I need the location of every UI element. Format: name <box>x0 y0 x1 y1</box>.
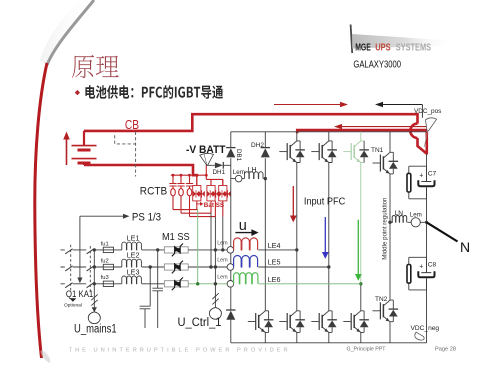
VDC_pos cone <box>426 118 437 131</box>
svg-text:THE UNINTERRUPTIBLE POWER PROV: THE UNINTERRUPTIBLE POWER PROVIDER <box>69 348 288 354</box>
svg-text:VDC_neg: VDC_neg <box>411 325 440 332</box>
svg-text:U_Ctrl_1: U_Ctrl_1 <box>178 317 222 329</box>
svg-text:LE3: LE3 <box>127 267 140 276</box>
svg-text:LE5: LE5 <box>268 258 281 267</box>
svg-text:N: N <box>460 239 470 255</box>
top rail <box>231 131 427 133</box>
Optional marker <box>70 298 77 302</box>
C8 branch box <box>409 257 427 290</box>
antiparallel diode bottom-1 <box>264 311 274 333</box>
diode DH1 <box>215 162 223 168</box>
RCTB varistor ovals x3 <box>171 189 192 196</box>
thyristor module M1SS pole 2 <box>164 261 188 274</box>
inductor LE3 <box>122 276 142 284</box>
bottom rail <box>231 342 427 344</box>
hatch marks U_Ctrl_1 <box>212 293 218 304</box>
Lem sensor row 3 <box>227 281 234 288</box>
svg-text:SYSTEMS: SYSTEMS <box>396 42 431 53</box>
gray swoosh stroke <box>47 0 94 65</box>
svg-text:fu1: fu1 <box>101 241 109 247</box>
Bat SS drop through rows to U_Ctrl_1 <box>214 217 216 308</box>
Bat SS drop to row1 <box>222 217 224 250</box>
inductor LE4 (red) <box>234 238 258 250</box>
svg-text:RCTB: RCTB <box>140 185 167 197</box>
antiparallel diode top-3 <box>359 141 369 163</box>
svg-text:LE4: LE4 <box>268 241 281 250</box>
MGE logo swoosh line <box>351 25 353 54</box>
svg-text:+: + <box>419 264 423 271</box>
antiparallel diode bottom-4 <box>359 311 369 333</box>
dashed box at battery <box>115 132 136 177</box>
fuse fu3 <box>103 281 113 286</box>
C7 branch box <box>409 166 427 199</box>
row 3 wire module->Lem <box>188 283 227 285</box>
switch KA1 pole 1 <box>87 249 94 254</box>
black flow arrow left (top) <box>382 104 422 106</box>
svg-text:+: + <box>419 172 423 179</box>
node TN midpoint/LN <box>388 221 391 224</box>
DH1 anode wire <box>206 164 231 166</box>
svg-text:Lem: Lem <box>410 211 422 218</box>
fuse fu2 <box>103 264 113 269</box>
node leg3/LE6 <box>359 282 362 285</box>
antiparallel diode top-1 <box>295 141 305 163</box>
LN wire <box>390 221 427 223</box>
top IGBT leg 3 lead <box>360 132 362 141</box>
IGBT bottom-4 <box>343 311 364 333</box>
capacitor C8 <box>421 257 431 272</box>
svg-text:fu3: fu3 <box>101 275 109 281</box>
DH2 leg wire <box>264 132 266 311</box>
capacitor C7 <box>421 166 431 181</box>
battery charge arrow <box>66 138 68 165</box>
inductor LE5 (blue) <box>234 255 258 267</box>
top-left corner shading <box>40 0 93 66</box>
red flow arrow right (top) <box>274 104 341 106</box>
hatch marks U_mains1 <box>91 294 97 305</box>
node leg1/LE4 <box>295 248 298 251</box>
bottom leg 3 emitter to rail <box>328 332 330 342</box>
transistor TN2 <box>373 300 394 322</box>
inductor LE2 <box>122 259 142 267</box>
svg-text:LE6: LE6 <box>268 275 281 284</box>
switch KA1 pole 3 <box>87 283 94 288</box>
svg-text:fu2: fu2 <box>101 258 109 264</box>
-V BATT cone <box>200 153 214 165</box>
Lem sensor row 1 <box>227 247 234 254</box>
inductor LH <box>245 172 263 179</box>
switch Q1 pole 2 <box>65 266 72 271</box>
thyristor module M1SS pole 3 <box>164 277 188 290</box>
phase row 3: feed stub <box>61 283 165 285</box>
node leg2/LE5 <box>327 265 330 268</box>
bottom diode on left bus <box>226 310 235 320</box>
U_mains1 tap wire <box>93 250 95 307</box>
wire LE5 -> leg2 <box>258 266 329 268</box>
switch Q1 pole 3 <box>65 283 72 288</box>
antiparallel diode bottom-2 <box>295 311 305 333</box>
middle point wire TN1->TN2 <box>389 174 391 300</box>
phase cap tap 1 <box>152 250 163 328</box>
diode DB1 <box>226 148 235 158</box>
svg-text:MGE: MGE <box>355 42 371 53</box>
switch Q1 pole 1 <box>65 249 72 254</box>
battery CB cells <box>72 131 97 165</box>
svg-text:Middle point regulation: Middle point regulation <box>381 197 388 260</box>
wire LE6 -> leg3 (green) <box>258 283 361 285</box>
svg-text:LE2: LE2 <box>127 251 140 260</box>
fuse fu1 <box>103 247 113 252</box>
svg-text:Lem: Lem <box>217 274 228 280</box>
bullet text 电池供电：PFC的IGBT导通 <box>85 85 223 99</box>
CB battery top wire + jog + top feed line <box>84 114 418 131</box>
VDC_neg cone <box>415 332 424 340</box>
svg-text:Input PFC: Input PFC <box>304 197 345 208</box>
svg-text:TN2: TN2 <box>375 296 388 303</box>
Bat SS box top leads <box>197 175 223 185</box>
right DC bus <box>426 154 428 343</box>
label Bat SS <box>197 203 201 205</box>
row 1 wire module->Lem <box>188 249 227 251</box>
bleeder resistor R8 <box>407 265 411 284</box>
top IGBT leg 2 lead <box>328 132 330 141</box>
svg-text:LN: LN <box>395 210 404 217</box>
svg-text:DH1: DH1 <box>213 169 226 176</box>
svg-text:LE1: LE1 <box>127 234 140 243</box>
TN1 lead from top rail <box>389 132 391 153</box>
svg-text:U_mains1: U_mains1 <box>74 324 117 336</box>
U_mains1 arrowhead <box>92 307 97 312</box>
bottom leg 4 emitter to rail <box>360 332 362 342</box>
bottom leg 2 emitter to rail <box>296 332 298 342</box>
MGE logo gradient band <box>352 34 458 49</box>
node N tap <box>425 221 428 224</box>
PS 1/3 arrow <box>80 215 124 217</box>
bullet diamond <box>75 90 80 95</box>
swoosh tip shadow <box>41 350 51 363</box>
green down arrow <box>357 220 359 274</box>
svg-text:GALAXY3000: GALAXY3000 <box>353 60 401 71</box>
Lem sensor row 2 <box>227 264 234 271</box>
RCTB second bus <box>197 165 223 185</box>
red path to DC bus <box>418 138 427 154</box>
svg-text:TN1: TN1 <box>371 147 384 154</box>
wire hop bump over return line <box>410 124 417 138</box>
svg-text:G_Principle PPT: G_Principle PPT <box>347 346 387 352</box>
top IGBT leg 1 lead <box>296 132 298 141</box>
Bat SS drop to row2 <box>210 213 212 267</box>
Lem sensor (neutral) <box>411 218 420 227</box>
svg-text:PS 1/3: PS 1/3 <box>132 212 161 224</box>
Q1 dashed linkage <box>70 245 72 292</box>
svg-text:Optional: Optional <box>64 303 82 309</box>
svg-text:VDC_pos: VDC_pos <box>414 108 441 115</box>
bottom leg 1 emitter to rail <box>264 332 266 342</box>
RCTB red bus <box>171 174 207 176</box>
thyristor module M1SS pole 1 <box>164 244 188 257</box>
Bat SS thyristor boxes x3 <box>193 186 231 201</box>
transistor TN1 <box>373 152 394 174</box>
title 原理 <box>72 55 119 78</box>
svg-text:Page 28: Page 28 <box>435 346 456 352</box>
diode DH2 <box>261 148 270 158</box>
row 2 wire module->Lem <box>188 266 227 268</box>
red down arrow <box>292 186 294 216</box>
KA1 dashed linkage <box>89 246 91 293</box>
Lem sensor circle (battery) <box>235 175 242 182</box>
inductor LE1 <box>122 242 142 250</box>
antiparallel diode top-2 <box>327 141 337 163</box>
RCTB capacitors C x3 <box>169 175 193 216</box>
U_Ctrl_1 balloon <box>209 307 221 319</box>
IGBT bottom-3 <box>311 311 332 333</box>
switch KA1 pole 2 <box>87 266 94 271</box>
svg-text:M1 SS: M1 SS <box>162 231 190 243</box>
VDC_pos probe wire <box>421 105 423 118</box>
leg wire top1 -> LE4 node -> bottom2 <box>296 163 298 311</box>
red swoosh stroke <box>35 63 47 358</box>
Bat SS bottom rails <box>173 201 223 217</box>
left DC bus <box>230 132 232 343</box>
IGBT bottom-2 <box>279 311 300 333</box>
leg wire top2 -> LE5 node -> bottom3 <box>328 163 330 311</box>
inductor LN <box>392 215 406 222</box>
red flow arrow left (mid) <box>341 126 429 128</box>
antiparallel diode bottom-3 <box>327 311 337 333</box>
U_mains1 balloon <box>88 312 100 324</box>
node: LH output junction <box>264 177 267 180</box>
TN2 antiparallel diode <box>389 300 399 322</box>
svg-text:C8: C8 <box>428 262 437 269</box>
branch wire <box>231 178 265 180</box>
red return line on top rail <box>297 130 427 154</box>
green drop to row3 <box>197 210 199 284</box>
svg-text:CB: CB <box>125 118 139 132</box>
phase row 1: feed stub <box>61 249 165 251</box>
IGBT top-1 <box>279 141 300 163</box>
N feeder line <box>427 222 458 241</box>
svg-text:Q1 KA1: Q1 KA1 <box>66 289 93 300</box>
phase row 2: feed stub <box>61 266 165 268</box>
svg-text:u: u <box>239 218 247 234</box>
svg-text:DH2: DH2 <box>251 142 264 149</box>
bleeder resistor R7 <box>407 173 411 192</box>
phase cap tap 2 <box>140 267 151 328</box>
inductor LE6 (green) <box>234 273 258 284</box>
leg wire LE6 node -> bottom4 <box>360 284 362 311</box>
IGBT top-2 <box>311 141 332 163</box>
wire LE4 -> leg1 <box>258 249 297 251</box>
svg-text:C7: C7 <box>428 170 437 177</box>
svg-text:LH: LH <box>248 167 257 174</box>
IGBT bottom-1 <box>248 311 269 333</box>
leg wire top3 (green) -> LE6 node <box>360 163 362 284</box>
node taps <box>93 248 96 251</box>
svg-text:Bat SS: Bat SS <box>204 202 224 209</box>
TN2 emitter to bottom rail <box>389 322 391 343</box>
svg-text:UPS: UPS <box>375 42 391 53</box>
svg-text:Lem: Lem <box>217 258 228 264</box>
TN1 antiparallel diode <box>389 152 399 174</box>
blue down arrow <box>324 217 326 252</box>
svg-text:DB1: DB1 <box>235 149 242 162</box>
IGBT top-3 <box>343 141 364 163</box>
RCTB bus junction dots <box>172 174 208 177</box>
CB battery bottom wire <box>84 165 197 175</box>
